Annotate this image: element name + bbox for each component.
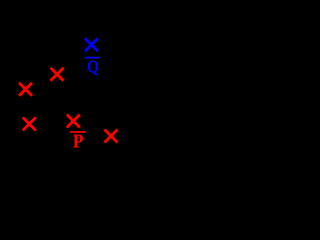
svg-text:P: P <box>73 131 84 153</box>
red X marker 5 <box>105 130 118 143</box>
red X marker 3 <box>23 117 36 130</box>
blue X marker Q <box>85 38 98 51</box>
label Qbar overline <box>85 57 100 59</box>
red X marker 2 <box>19 83 32 96</box>
label Pbar overline <box>70 131 86 133</box>
red X marker 1 <box>51 68 64 81</box>
red X marker 4 <box>67 115 80 128</box>
svg-text:Q: Q <box>87 57 99 77</box>
